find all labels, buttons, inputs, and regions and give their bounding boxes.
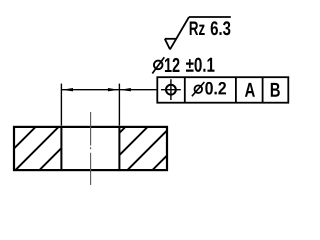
dimension arrow right [108,88,119,91]
leader arrow [120,88,131,91]
dimension line [62,89,119,91]
frame divider 3 [262,77,264,103]
dimension text ±0.1 [186,58,215,72]
hole left edge [60,127,62,170]
surface roughness symbol [165,17,231,49]
part outline [14,127,167,170]
tolerance text 0.2 [205,82,226,95]
extension line left [60,84,62,126]
roughness text 6.3 [211,21,231,35]
dimension text 12 [165,58,180,72]
centerline [90,112,92,185]
tolerance diameter symbol [192,82,205,96]
frame divider 2 [235,77,237,103]
datum text B [271,83,280,97]
feature control frame [157,77,288,103]
dimension diameter symbol [152,57,164,73]
hole right edge [118,127,120,170]
dimension arrow left [62,88,73,91]
datum text A [245,83,255,97]
frame divider 1 [184,77,186,103]
leader line [120,89,156,91]
roughness text Rz [190,22,205,36]
extension line right [118,84,120,126]
position symbol [161,79,181,100]
section hatching [0,125,198,172]
